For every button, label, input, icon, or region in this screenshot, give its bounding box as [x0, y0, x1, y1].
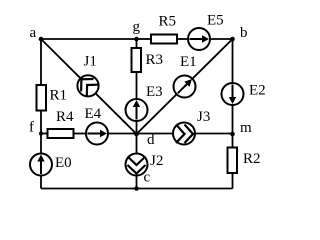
source E3 — [126, 84, 163, 121]
svg-text:E4: E4 — [85, 106, 102, 122]
resistor R3 — [132, 48, 164, 72]
wire a-g top rail — [41, 38, 137, 40]
wire d-J2 — [136, 134, 138, 154]
node b — [230, 25, 247, 41]
svg-text:R3: R3 — [146, 52, 164, 68]
svg-text:E3: E3 — [146, 84, 163, 100]
wire b-E1 diagonal — [192, 39, 232, 79]
wire g-R5 — [137, 38, 152, 40]
node a — [30, 25, 44, 41]
svg-text:a: a — [30, 25, 37, 41]
wire J1-d diagonal — [96, 93, 137, 134]
wire E0-bottom — [40, 176, 42, 189]
resistor R1 — [37, 85, 68, 111]
current source J1 — [77, 54, 98, 97]
wire E5-b — [210, 38, 233, 40]
wire R1-f — [40, 111, 42, 134]
source E0 — [30, 154, 72, 176]
svg-text:m: m — [240, 120, 252, 136]
current source J3 — [173, 109, 210, 145]
wire a-R1 left rail — [40, 39, 42, 85]
svg-text:J2: J2 — [150, 153, 163, 169]
node c — [134, 170, 150, 191]
source E4 — [85, 106, 109, 145]
node d — [134, 132, 155, 148]
wire E2-m — [232, 105, 234, 134]
svg-text:J3: J3 — [197, 109, 210, 125]
resistor R2 — [228, 148, 261, 174]
wire J2-c — [136, 176, 138, 189]
svg-text:R5: R5 — [159, 14, 177, 30]
wire R3-E3 — [136, 72, 138, 99]
wire m-R2 — [232, 134, 234, 148]
wire E3-d — [136, 121, 138, 134]
wire bottom rail — [41, 188, 233, 190]
svg-text:g: g — [133, 19, 141, 35]
svg-text:J1: J1 — [84, 54, 97, 70]
source E5 — [188, 13, 224, 51]
svg-text:c: c — [144, 170, 151, 186]
svg-text:E1: E1 — [180, 54, 197, 70]
node g — [133, 19, 141, 41]
wire E4-d — [108, 133, 137, 135]
wire R4-E4 — [74, 133, 87, 135]
resistor R4 — [48, 109, 75, 138]
wire R2-bottom — [232, 173, 234, 189]
resistor R5 — [151, 14, 177, 44]
svg-text:d: d — [147, 132, 155, 148]
node f — [29, 120, 43, 136]
wire b-E2 right rail — [232, 39, 234, 83]
svg-text:E5: E5 — [207, 13, 224, 29]
wire f-E0 — [40, 134, 42, 154]
source E2 — [222, 83, 266, 106]
wire J3-m — [195, 133, 233, 135]
wire d-J3 — [137, 133, 174, 135]
current source J2 — [126, 153, 164, 176]
node m — [230, 120, 252, 136]
wire a-J1 diagonal — [41, 39, 81, 78]
svg-text:b: b — [240, 25, 248, 41]
wire g-R3 — [136, 39, 138, 48]
svg-text:E0: E0 — [55, 155, 72, 171]
svg-text:E2: E2 — [249, 83, 266, 99]
wire R5-E5 — [177, 38, 188, 40]
svg-text:f: f — [29, 120, 34, 136]
svg-text:R1: R1 — [50, 88, 68, 104]
source E1 — [174, 54, 197, 98]
svg-text:R2: R2 — [243, 151, 261, 167]
wire E1-d diagonal — [137, 94, 177, 134]
wire f-R4 — [41, 133, 48, 135]
svg-text:R4: R4 — [56, 109, 74, 125]
